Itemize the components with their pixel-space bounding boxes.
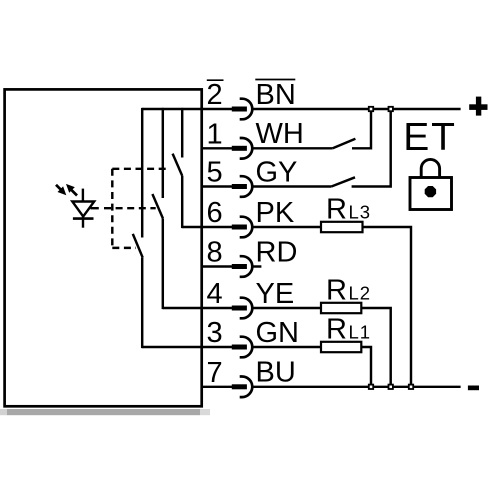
pin 1 socket arc bbox=[240, 138, 253, 159]
switch S4 blade (WH) bbox=[333, 139, 356, 149]
junction on plus rail at GY riser bbox=[389, 107, 393, 111]
pin 4 contact bar bbox=[232, 306, 247, 311]
LED diode bottom stub bbox=[82, 217, 84, 228]
dashed link to switch S1 bbox=[112, 168, 167, 170]
junction on plus rail at WH riser bbox=[369, 107, 373, 111]
resistor RL2 bbox=[321, 303, 361, 313]
switch S3 blade bbox=[133, 234, 143, 258]
wire: pin 3 GN to resistor bbox=[142, 346, 232, 348]
svg-text:ET: ET bbox=[403, 116, 456, 159]
wire RL1 to minus riser bbox=[361, 347, 371, 387]
svg-text:GN: GN bbox=[256, 317, 300, 349]
resistor RL3 bbox=[321, 222, 363, 232]
dashed actuator stem bbox=[111, 169, 113, 248]
pin 7 socket arc bbox=[240, 377, 253, 398]
dashed link from LED to switch S2 bbox=[104, 207, 156, 209]
LED anode solid stub bbox=[91, 207, 99, 209]
pin 2 overline bbox=[207, 79, 224, 81]
pin 8 contact bar bbox=[232, 264, 247, 269]
svg-text:BU: BU bbox=[256, 357, 296, 389]
switch S1 blade bbox=[173, 154, 183, 176]
pin 3 socket arc bbox=[240, 337, 253, 358]
wire: pin 7 BU minus rail bbox=[202, 386, 233, 388]
wire: + rail from socket to plus terminal bbox=[251, 108, 460, 110]
pin 2 socket arc bbox=[240, 99, 253, 120]
sensor housing box bbox=[5, 89, 202, 406]
switch S4 output wire to riser bbox=[352, 109, 371, 148]
wire: pin 8 RD stub bbox=[202, 265, 233, 267]
wire: pin 6 PK to resistor bbox=[182, 226, 232, 228]
pin 2 contact bar bbox=[232, 107, 247, 112]
wire RL2 to minus riser bbox=[361, 308, 390, 387]
switch S2 upper lead (YE riser) bbox=[162, 108, 164, 198]
svg-text:6: 6 bbox=[207, 197, 223, 229]
pin 5 socket arc bbox=[240, 176, 253, 197]
svg-text:3: 3 bbox=[207, 317, 223, 349]
wire: pin 4 YE to resistor bbox=[163, 307, 233, 309]
switch S5 blade (GY) bbox=[331, 177, 355, 186]
junction on minus rail at RL3 riser bbox=[409, 385, 413, 389]
switch S3 upper lead (GN riser) bbox=[141, 108, 143, 238]
LED diode top stub bbox=[82, 189, 84, 202]
junction on minus rail at RL2 riser bbox=[389, 385, 393, 389]
pin 7 contact bar bbox=[232, 384, 247, 389]
switch S5 output wire to riser bbox=[352, 109, 391, 187]
LED cathode bar bbox=[73, 217, 94, 220]
wire: pin 5 GY bbox=[202, 185, 233, 187]
switch S2 lower lead bbox=[162, 218, 164, 309]
switch S1 lower lead bbox=[181, 176, 183, 228]
svg-text:GY: GY bbox=[256, 156, 298, 188]
junction on minus rail at RL1 riser bbox=[369, 385, 373, 389]
switch S2 blade bbox=[152, 194, 163, 218]
svg-text:1: 1 bbox=[207, 119, 223, 151]
svg-text:4: 4 bbox=[207, 278, 223, 310]
svg-text:8: 8 bbox=[207, 237, 223, 269]
light arrow incoming bbox=[56, 185, 66, 195]
dashed link to switch S3 bbox=[112, 247, 136, 249]
LED diode triangle bbox=[72, 202, 94, 217]
svg-text:WH: WH bbox=[256, 118, 304, 150]
light arrow outgoing bbox=[66, 184, 77, 196]
svg-text:BN: BN bbox=[256, 79, 296, 111]
pin 8 socket arc bbox=[240, 256, 253, 277]
svg-text:2: 2 bbox=[207, 79, 223, 111]
switch S3 lower lead bbox=[141, 258, 143, 349]
lock icon body bbox=[410, 178, 452, 210]
pin 1 contact bar bbox=[232, 146, 247, 151]
svg-text:5: 5 bbox=[207, 157, 223, 189]
housing shadow bar bbox=[0, 409, 210, 415]
switch S1 upper lead (PK riser) bbox=[181, 108, 183, 158]
pin 4 socket arc bbox=[240, 298, 253, 319]
lock icon shackle bbox=[421, 159, 439, 177]
svg-text:YE: YE bbox=[256, 278, 295, 310]
resistor RL1 bbox=[321, 342, 361, 352]
BN overline bbox=[255, 79, 295, 81]
wire RL3 to minus riser bbox=[363, 227, 412, 387]
pin 5 contact bar bbox=[232, 184, 247, 189]
pin 3 contact bar bbox=[232, 345, 247, 350]
pin 6 socket arc bbox=[240, 217, 253, 238]
svg-text:7: 7 bbox=[207, 357, 223, 389]
wire: + rail (pin 2 / BN) inside box to contact bbox=[142, 108, 232, 110]
svg-text:PK: PK bbox=[256, 197, 295, 229]
wire: pin 1 WH bbox=[202, 147, 233, 149]
svg-text:RD: RD bbox=[256, 236, 298, 268]
pin 6 contact bar bbox=[232, 225, 247, 230]
minus terminal symbol bbox=[468, 386, 479, 391]
plus terminal symbol bbox=[469, 97, 487, 116]
lock icon keyhole bbox=[425, 186, 436, 197]
